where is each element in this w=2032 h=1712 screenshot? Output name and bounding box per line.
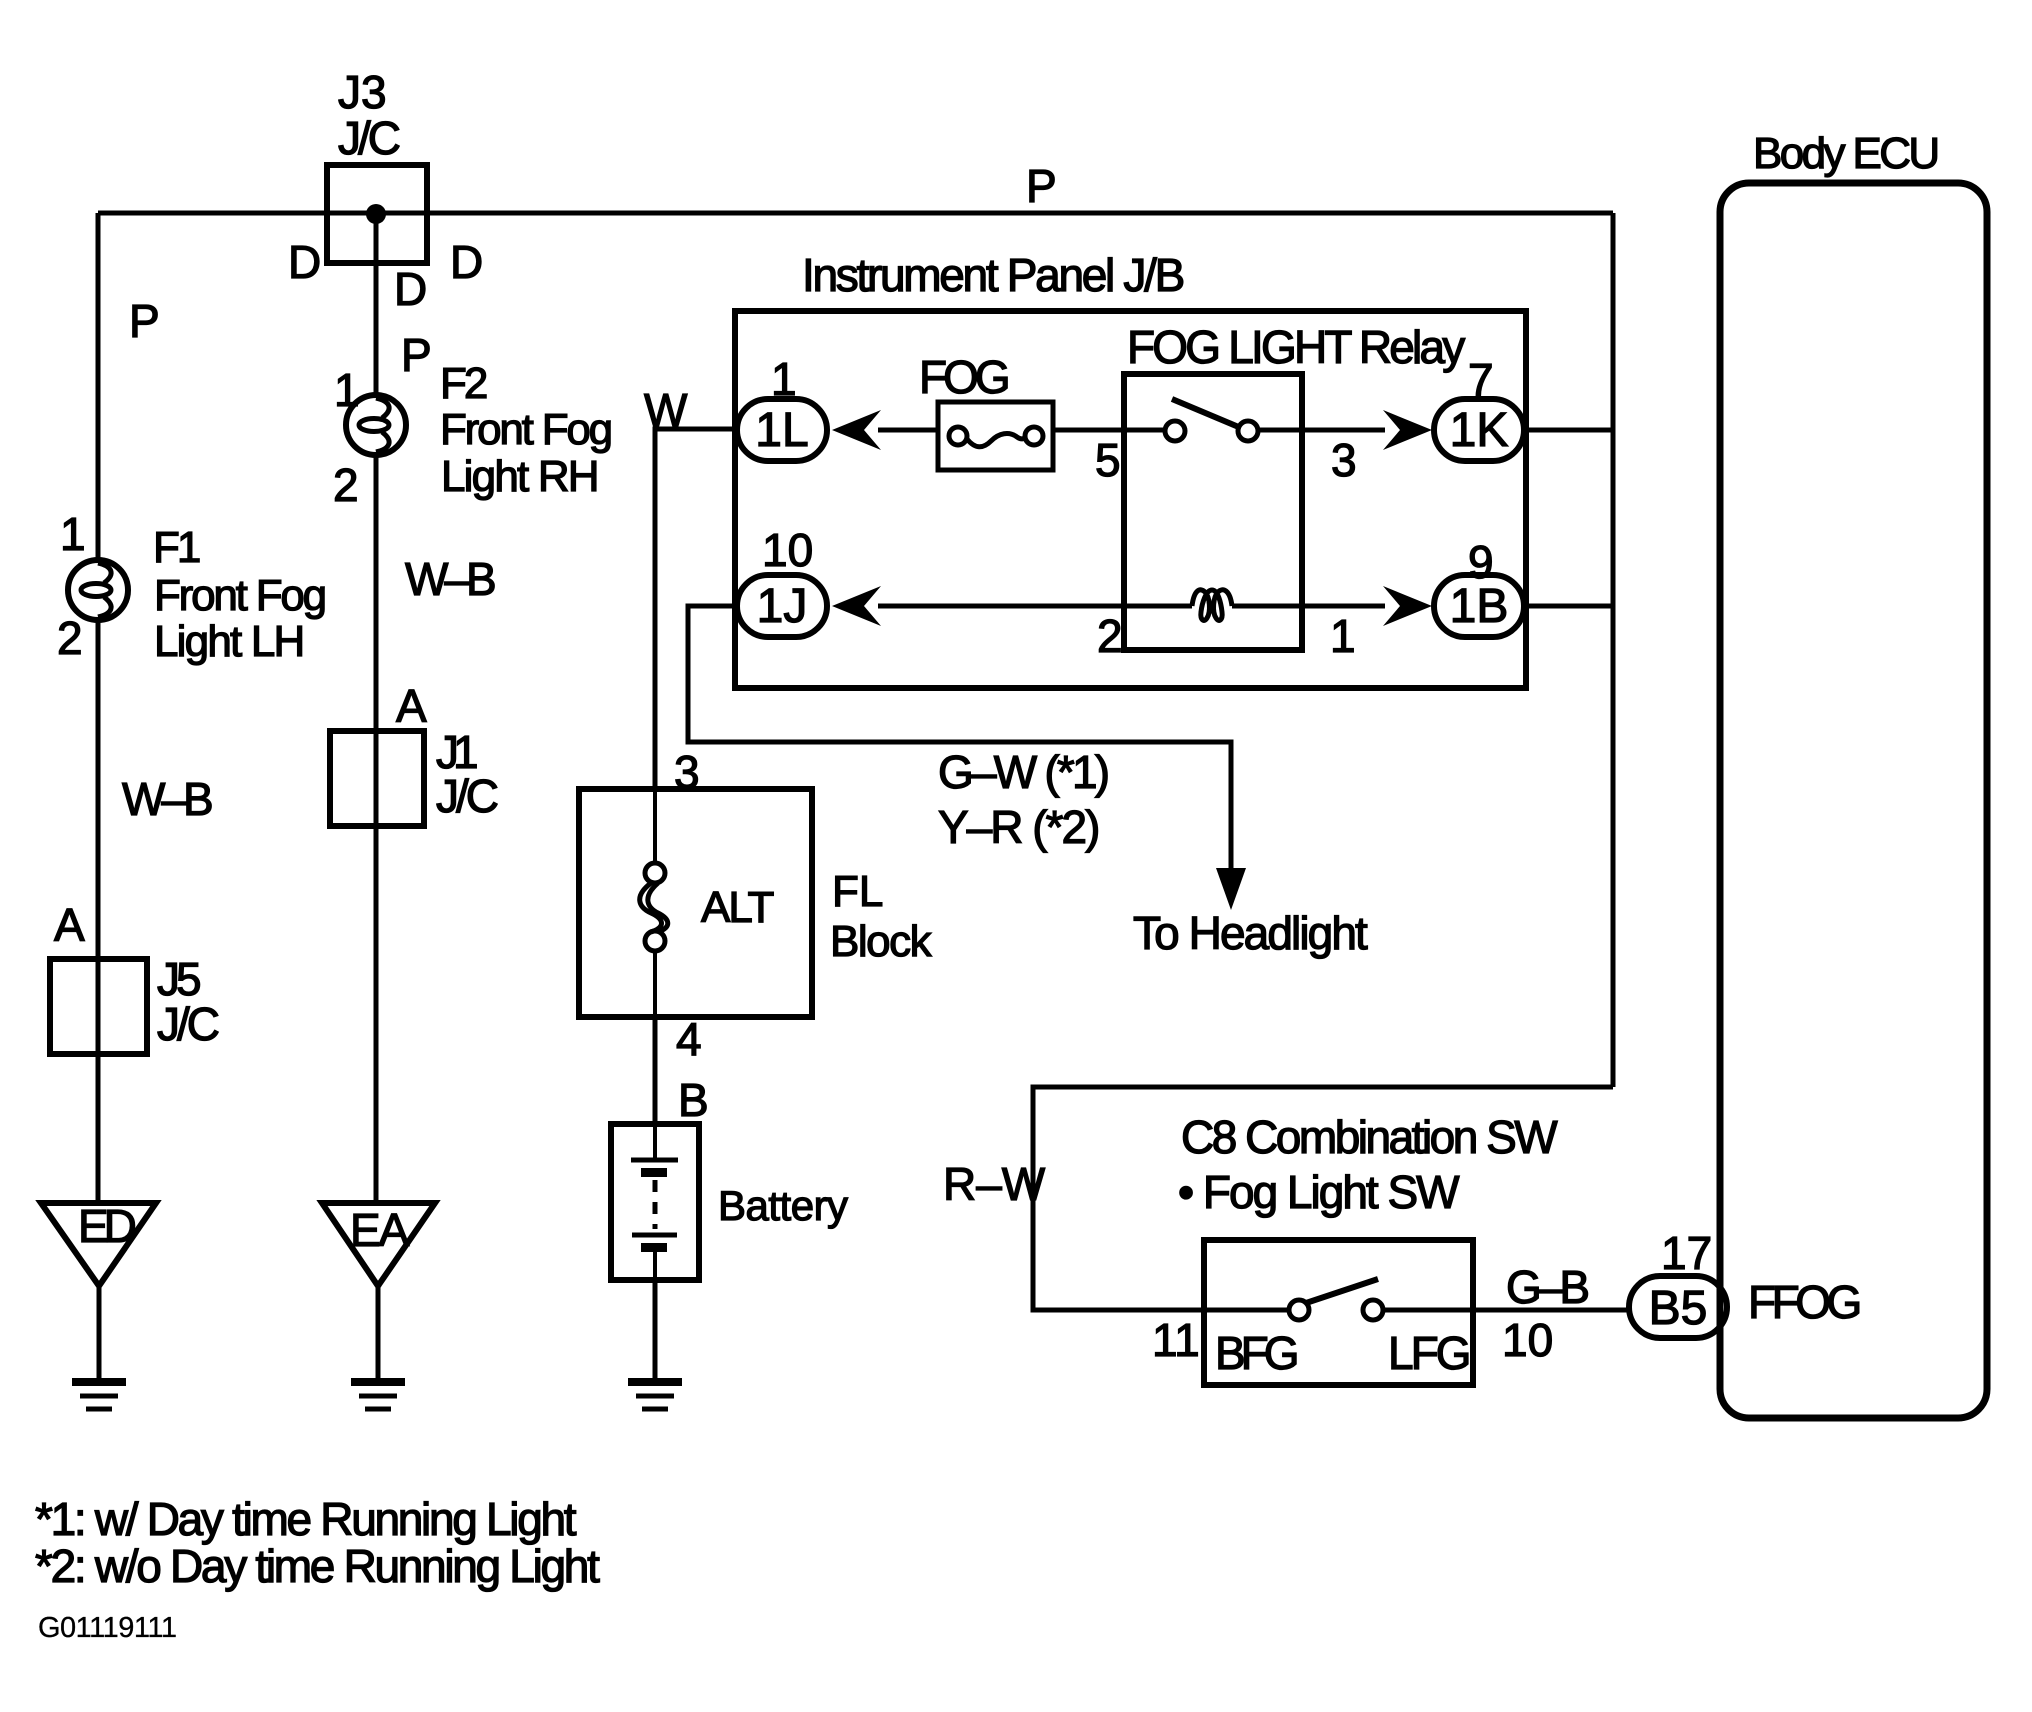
junction box J3: [327, 165, 427, 263]
svg-text:C8 Combination SW: C8 Combination SW: [1181, 1111, 1558, 1163]
wire battery to ground: [653, 1280, 658, 1381]
svg-text:A: A: [54, 899, 85, 951]
svg-text:F1: F1: [153, 523, 200, 572]
svg-text:BFG: BFG: [1215, 1327, 1297, 1379]
connector 1B pin 9: [1434, 575, 1524, 637]
arrow into 1B: [1383, 586, 1432, 626]
ground symbol ED: [72, 1382, 126, 1409]
switch contact BFG 11: [1289, 1300, 1309, 1320]
FL block ALT box: [579, 789, 812, 1017]
svg-text:G–W (*1): G–W (*1): [938, 746, 1108, 798]
svg-text:Instrument Panel J/B: Instrument Panel J/B: [802, 249, 1184, 301]
relay coil: [1192, 590, 1232, 621]
ground symbol battery: [628, 1382, 682, 1409]
svg-text:P: P: [401, 329, 432, 381]
svg-text:Light LH: Light LH: [154, 617, 303, 666]
wire relay contact 3 to 1K arrow: [1257, 428, 1385, 433]
ground triangle ED: [41, 1203, 156, 1286]
svg-text:D: D: [450, 236, 483, 288]
relay switch contact 5: [1165, 421, 1185, 441]
connector 1J pin 10: [737, 575, 827, 637]
svg-text:Body ECU: Body ECU: [1753, 129, 1938, 178]
svg-text:B: B: [678, 1074, 709, 1126]
svg-text:To Headlight: To Headlight: [1133, 907, 1368, 959]
arrow into 1K: [1383, 410, 1432, 450]
switch contact LFG 10: [1363, 1300, 1383, 1320]
connector 1L pin 1: [737, 399, 827, 461]
wire EA apex to ground: [376, 1286, 381, 1381]
svg-text:J/C: J/C: [338, 112, 400, 164]
svg-text:Block: Block: [830, 917, 933, 966]
svg-text:FFOG: FFOG: [1748, 1276, 1859, 1328]
svg-text:W–B: W–B: [405, 553, 495, 605]
svg-text:R–W: R–W: [943, 1158, 1046, 1210]
svg-text:Light RH: Light RH: [441, 452, 598, 501]
svg-text:1B: 1B: [1450, 580, 1509, 633]
wire FOG fuse to relay switch contact 5: [1053, 428, 1166, 433]
svg-text:G01119111: G01119111: [38, 1612, 176, 1644]
svg-text:11: 11: [1152, 1314, 1200, 1366]
svg-text:1: 1: [60, 508, 86, 560]
wire vertical trunk x=1613 past 1K and 1B rows: [1611, 213, 1616, 1087]
wire F1 to J5: [96, 622, 101, 1203]
svg-text:D: D: [288, 236, 321, 288]
svg-text:A: A: [396, 680, 427, 732]
svg-text:EA: EA: [350, 1204, 410, 1256]
svg-text:FOG LIGHT Relay: FOG LIGHT Relay: [1127, 321, 1465, 373]
wire P bus from F1 branch across to x=1613: [98, 211, 1613, 216]
svg-text:J/C: J/C: [157, 998, 219, 1050]
svg-text:1L: 1L: [755, 404, 808, 457]
wire left branch (P / W-B) x=98 from bus down to F1 lamp: [96, 213, 101, 558]
svg-text:1: 1: [334, 364, 360, 416]
svg-text:W–B: W–B: [122, 773, 212, 825]
combination switch box C8: [1204, 1240, 1473, 1385]
wire ED apex to ground: [97, 1286, 102, 1381]
ground symbol EA: [351, 1382, 405, 1409]
svg-text:10: 10: [762, 524, 813, 576]
wire 1J to headlight branch: [688, 606, 1231, 868]
lamp F2 Front Fog Light RH: [346, 395, 406, 455]
arrow To Headlight: [1216, 868, 1246, 910]
wire J3 branch x=376 from junction dot down to F2 lamp: [374, 214, 379, 393]
svg-text:7: 7: [1468, 354, 1494, 406]
node D junction dot in J3: [366, 204, 386, 224]
svg-text:ED: ED: [78, 1200, 136, 1252]
svg-text:4: 4: [676, 1013, 702, 1065]
fuse FOG: [938, 402, 1053, 470]
relay box FOG LIGHT Relay: [1124, 374, 1302, 650]
junction box J1: [330, 731, 424, 826]
wire R-W run from trunk to combination switch BFG: [1033, 1087, 1613, 1310]
svg-text:3: 3: [1331, 434, 1357, 486]
svg-text:ALT: ALT: [701, 883, 774, 932]
connector 1K pin 7: [1434, 399, 1524, 461]
svg-text:G–B: G–B: [1506, 1261, 1588, 1313]
svg-text:17: 17: [1661, 1227, 1712, 1279]
switch lever: [1306, 1279, 1378, 1303]
wire 1J arrow to relay coil: [878, 604, 1192, 609]
svg-text:LFG: LFG: [1388, 1327, 1469, 1379]
svg-text:1: 1: [1330, 610, 1356, 662]
svg-text:Front Fog: Front Fog: [154, 571, 325, 620]
Body ECU box: [1720, 183, 1987, 1418]
arrow into 1J: [832, 586, 881, 626]
Instrument Panel J/B box: [735, 311, 1526, 688]
svg-text:J/C: J/C: [436, 770, 498, 822]
wire switch LFG contact to B5 connector: [1381, 1308, 1631, 1313]
svg-text:• Fog Light SW: • Fog Light SW: [1178, 1166, 1460, 1218]
svg-text:P: P: [129, 295, 160, 347]
svg-text:2: 2: [57, 612, 83, 664]
fusible link ALT: [640, 789, 668, 1017]
svg-text:10: 10: [1502, 1314, 1553, 1366]
svg-text:Battery: Battery: [718, 1182, 848, 1229]
wire 1B to vertical trunk: [1524, 604, 1613, 609]
connector B5 pin 17: [1629, 1276, 1727, 1338]
svg-text:3: 3: [674, 746, 700, 798]
svg-text:1J: 1J: [757, 580, 808, 633]
svg-text:FL: FL: [832, 867, 883, 916]
junction box J5: [50, 959, 147, 1054]
svg-text:Y–R (*2): Y–R (*2): [938, 801, 1098, 853]
wire F2 to J1: [374, 457, 379, 1203]
svg-text:Front Fog: Front Fog: [440, 405, 611, 454]
battery B: [611, 1124, 699, 1280]
wire 1K to P bus vertical: [1524, 428, 1613, 433]
svg-text:B5: B5: [1649, 1282, 1708, 1335]
svg-text:F2: F2: [440, 359, 487, 408]
wire 1L arrow to FOG fuse: [878, 428, 938, 433]
wire ALT to battery: [653, 1017, 658, 1124]
svg-text:FOG: FOG: [919, 351, 1008, 403]
svg-text:5: 5: [1095, 434, 1121, 486]
svg-text:D: D: [394, 263, 427, 315]
wire W from 1L left to ALT block: [655, 429, 738, 789]
ground triangle EA: [322, 1203, 435, 1286]
svg-text:1: 1: [771, 353, 797, 405]
lamp F1 Front Fog Light LH: [68, 560, 128, 620]
relay switch contact 3: [1238, 421, 1258, 441]
wire relay coil to 1B arrow: [1232, 604, 1385, 609]
svg-text:*2: w/o Day time Running Light: *2: w/o Day time Running Light: [35, 1540, 600, 1592]
arrow into 1L: [832, 410, 881, 450]
svg-text:2: 2: [333, 459, 359, 511]
relay switch lever: [1172, 399, 1241, 428]
svg-text:1K: 1K: [1450, 404, 1509, 457]
svg-text:J3: J3: [338, 66, 387, 118]
svg-text:2: 2: [1097, 610, 1123, 662]
svg-text:P: P: [1026, 160, 1057, 212]
svg-text:W: W: [644, 384, 688, 436]
svg-text:*1: w/ Day time Running Light: *1: w/ Day time Running Light: [35, 1493, 577, 1545]
